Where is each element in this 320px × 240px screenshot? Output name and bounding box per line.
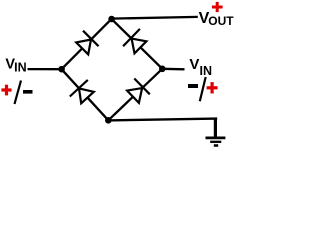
node right junction <box>159 66 166 73</box>
polarity left slash <box>15 81 22 105</box>
polarity right minus <box>188 84 198 88</box>
wire left input lead <box>28 68 62 70</box>
wire bridge edge bottom-right <box>108 69 162 121</box>
wire top output: node to VOUT <box>112 17 198 19</box>
polarity left minus <box>23 90 33 94</box>
node left junction <box>58 66 65 73</box>
node bottom junction <box>105 117 112 124</box>
wire bridge edge bottom-left <box>62 69 109 120</box>
diode D2 upper-right (anode right node, cathode top node) <box>123 29 146 54</box>
diode D1 upper-left (anode left node, cathode top node) <box>76 31 98 55</box>
svg-text:IN: IN <box>200 64 213 78</box>
svg-text:V: V <box>189 56 199 73</box>
polarity right slash <box>200 77 206 101</box>
polarity left + (red) <box>1 85 11 96</box>
diode D3 lower-left (anode bottom node, cathode left node) <box>70 80 94 103</box>
ground <box>206 138 226 146</box>
wire ground drop (vertical) <box>214 118 217 137</box>
polarity right + (red) <box>207 82 218 93</box>
polarity + at VOUT (red) <box>212 2 223 12</box>
wire bottom node to ground corner <box>108 119 217 121</box>
wire bridge edge left-top <box>62 19 112 69</box>
node top junction <box>108 16 115 23</box>
svg-text:IN: IN <box>14 61 27 75</box>
svg-text:OUT: OUT <box>208 14 234 28</box>
wire bridge edge right-top <box>112 19 163 69</box>
diode D4 lower-right (anode bottom node, cathode right node) <box>127 79 150 103</box>
wire right input lead <box>162 68 184 71</box>
